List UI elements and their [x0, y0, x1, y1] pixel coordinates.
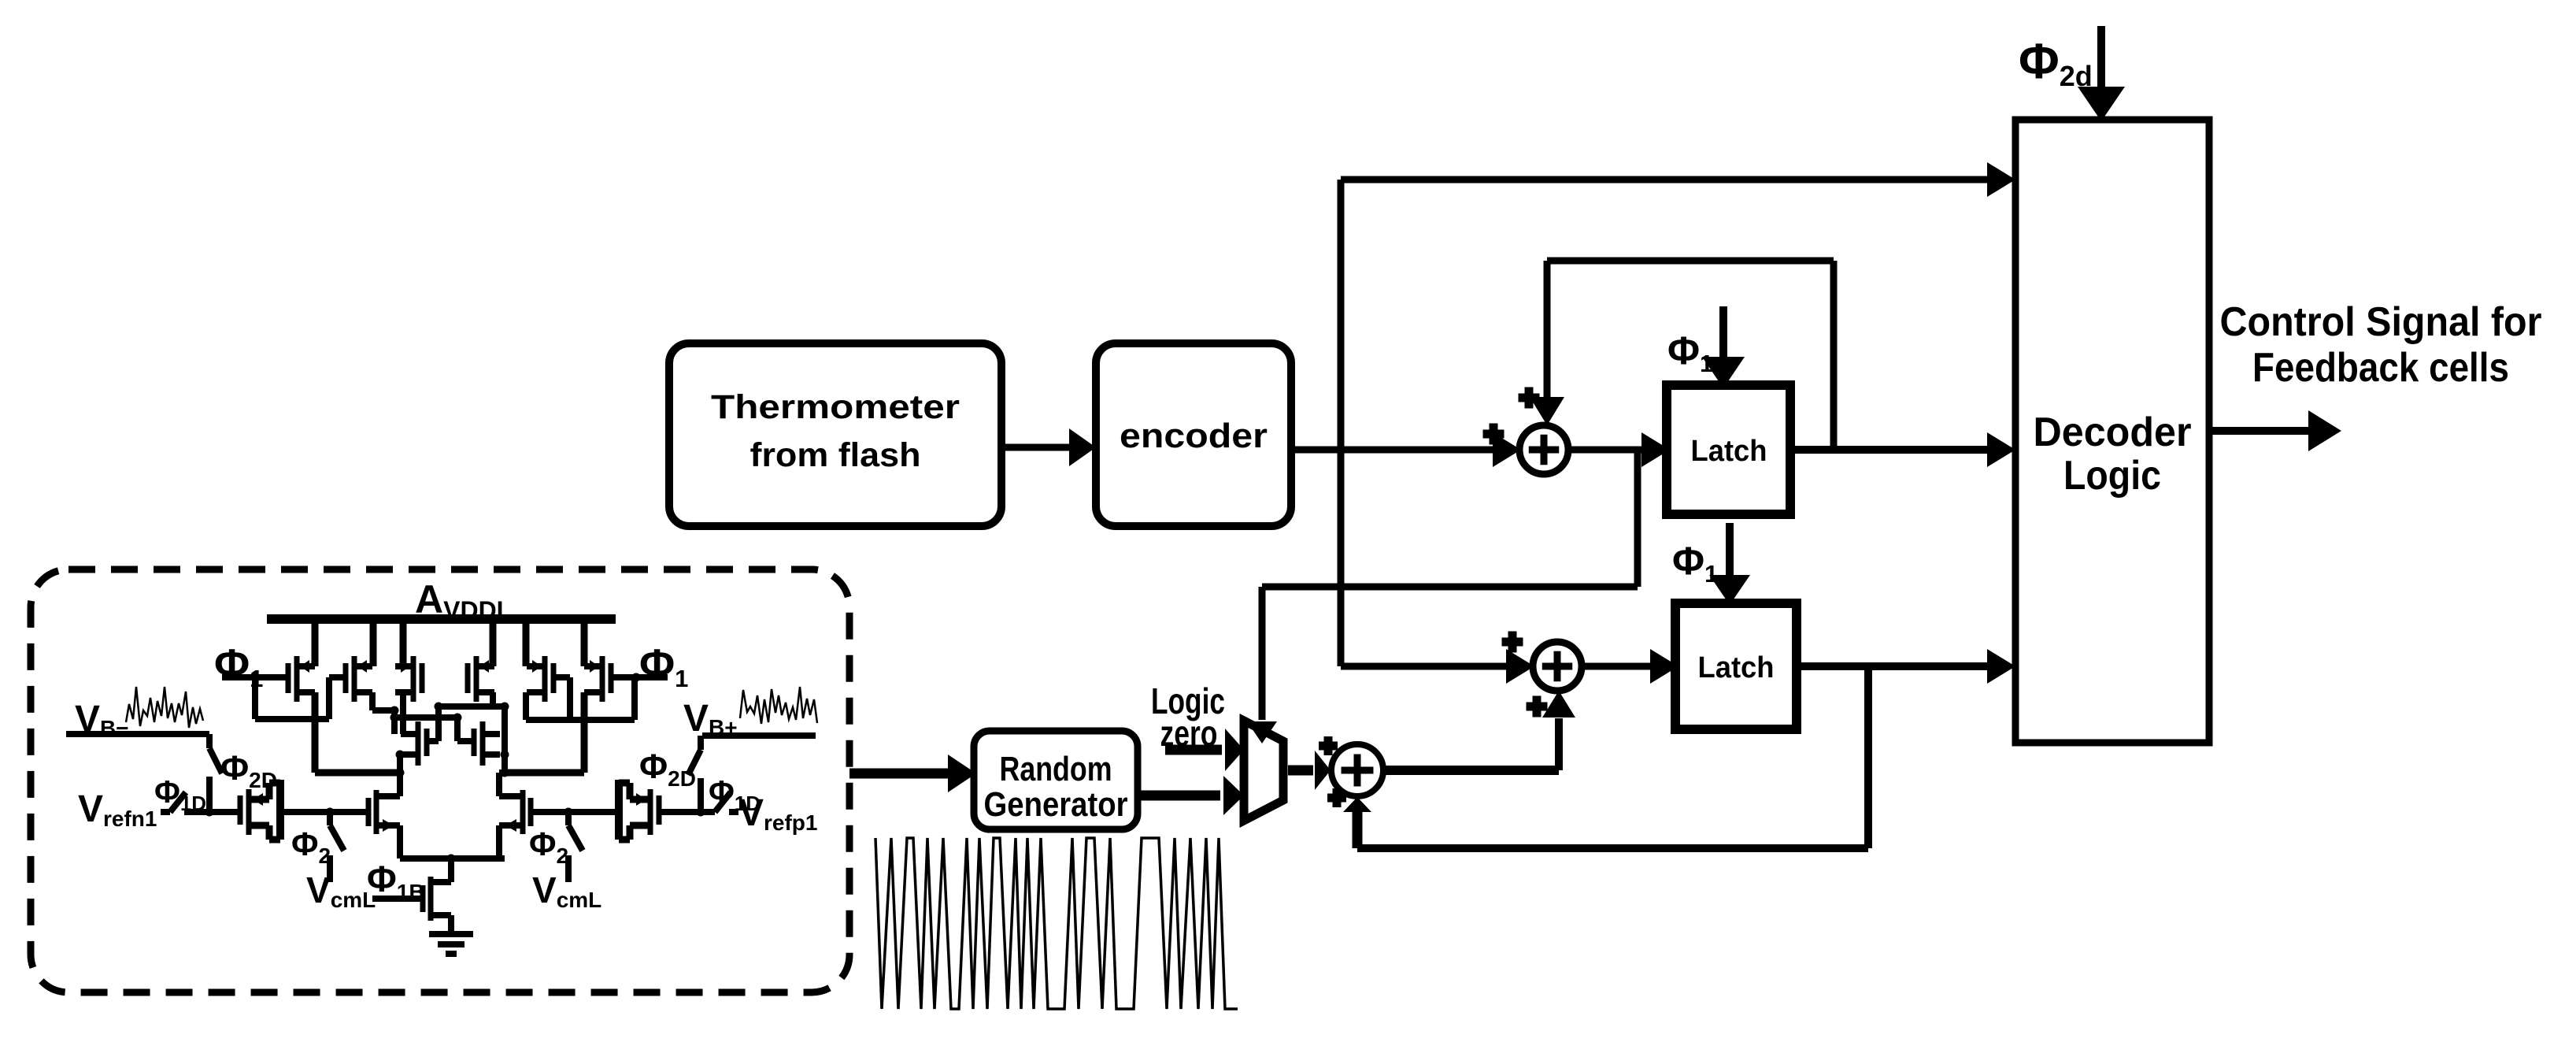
left noise squiggle — [126, 687, 203, 728]
rail stubs to top transistors — [312, 619, 319, 666]
wire phi1B gate lead — [372, 896, 423, 902]
transistor M4 (top row) — [465, 663, 471, 693]
switch phi1D left — [161, 809, 170, 815]
adder A1 (first summer) — [1519, 425, 1568, 474]
adder A2 (second summer) — [1533, 642, 1582, 691]
wire thermometer to encoder with arrow — [1005, 444, 1071, 451]
wire comparator output into random generator — [849, 769, 948, 779]
wire random generator output into mux — [1138, 791, 1220, 801]
wire phi1 feedback left — [252, 677, 258, 719]
power rail AVDDL — [267, 614, 616, 624]
input transistor MD1 (left of diff pair) — [366, 798, 372, 826]
switch phi1D right — [659, 809, 715, 815]
block: Thermometer from flash — [669, 343, 1001, 526]
wire adder A1 output branch down to mux select — [1634, 450, 1641, 587]
right noise squiggle — [740, 687, 817, 724]
svg-text:Thermometer: Thermometer — [711, 388, 960, 426]
wire lower branch to adder2 — [1341, 663, 1506, 670]
transistor M6 (top row right) — [609, 663, 614, 693]
wire phi1 left to M1 gate — [222, 674, 289, 680]
svg-text:Control Signal for: Control Signal for — [2220, 299, 2542, 345]
wire adder A2 to latch2 — [1582, 663, 1650, 670]
wire MD1 drain up — [397, 773, 403, 796]
adder A3 (third summer) — [1331, 744, 1383, 796]
switch phi2D left — [206, 734, 213, 748]
random generator output waveform — [875, 838, 1238, 1009]
cross-coupled transistor MC1 (left) — [424, 729, 430, 756]
switch phi2D right — [698, 736, 704, 750]
wire M5 source drop — [523, 692, 529, 720]
block: Latch 2 — [1675, 603, 1797, 729]
block: encoder — [1096, 343, 1291, 526]
wire MP1 output to diff gate — [279, 809, 368, 815]
switch phi2 left — [327, 812, 333, 825]
transistor M5 (top row) — [551, 663, 557, 693]
wire phi1 feedback right — [631, 677, 638, 720]
svg-text:Feedback cells: Feedback cells — [2252, 345, 2509, 391]
clock phi1 arrow into latch1 — [1719, 306, 1727, 358]
plus sign at adder A3 left input — [1319, 742, 1338, 751]
wire encoder output to adder1 — [1294, 447, 1493, 454]
block: Latch 1 — [1667, 385, 1790, 514]
wire top branch to decoder input 1 — [1341, 176, 1989, 184]
svg-text:Latch: Latch — [1691, 435, 1767, 468]
wire MD2 source down — [496, 825, 502, 858]
svg-text:from flash: from flash — [750, 436, 921, 474]
transistor M3 (top row) — [420, 663, 425, 693]
wire VB+ horizontal — [702, 732, 816, 739]
wire M2 source to cross node left — [369, 692, 376, 710]
plus sign at adder A1 left input — [1483, 430, 1505, 439]
cross pair source drops — [397, 755, 403, 773]
wire latch1 output to decoder input 2 — [1790, 446, 1989, 454]
svg-text:Latch: Latch — [1698, 651, 1775, 684]
dashed box: comparator / random source circuit — [31, 569, 849, 992]
plus sign at adder A2 left input — [1502, 638, 1523, 647]
svg-text:encoder: encoder — [1120, 417, 1268, 455]
wire phi1 right to M6 gate — [610, 674, 668, 680]
transistor M1 (top row left) — [286, 663, 291, 693]
input transistor MD2 (right of diff pair) — [528, 798, 534, 826]
feedback loop from latch1 output to adder A1 — [1830, 261, 1838, 450]
wire logic zero into mux — [1165, 745, 1222, 755]
mux (2-to-1 selector) — [1244, 721, 1283, 821]
wire latch2 output to decoder input 3 — [1797, 662, 1989, 670]
wire latch1 bottom to latch2 clock — [1726, 523, 1734, 577]
block: Decoder Logic — [2015, 120, 2209, 743]
wire M6 drain drop to output node right — [581, 692, 588, 773]
cross-coupled transistor MC2 (right) — [472, 729, 477, 756]
wire MP2 output to diff gate — [531, 809, 620, 815]
clock phi2d arrow into decoder top — [2097, 26, 2105, 91]
wire VB- horizontal — [66, 731, 209, 737]
wire M4 source drop — [490, 692, 496, 706]
wire MD1 source down — [397, 825, 403, 858]
ground symbol — [429, 931, 473, 937]
pass transistor MP2 (right) — [657, 795, 662, 825]
svg-text:Decoder: Decoder — [2034, 410, 2192, 455]
svg-text:Random: Random — [1000, 750, 1112, 788]
svg-text:Generator: Generator — [984, 785, 1128, 824]
block: Random Generator — [974, 731, 1138, 829]
switch phi2 right — [565, 812, 572, 825]
transistor M2 (top row) — [343, 663, 349, 693]
plus sign at adder A2 bottom input — [1527, 703, 1548, 711]
wire decoder output arrow — [2209, 427, 2310, 435]
wire mux output to adder A3 — [1288, 766, 1313, 776]
wire M1 drain drop to output node left — [312, 692, 319, 773]
tail node wire — [400, 855, 505, 862]
plus sign at adder A1 top input — [1519, 394, 1540, 402]
svg-text:Logic: Logic — [2063, 453, 2161, 499]
output node wires — [315, 769, 400, 777]
wire adder A1 to latch1 — [1568, 447, 1641, 454]
plus sign at adder A3 bottom input — [1327, 794, 1346, 803]
wire latch2 output feedback drop — [1864, 666, 1872, 848]
tail transistor MT — [420, 885, 426, 912]
pass transistor MP1 (left) — [238, 795, 243, 825]
wire encoder branch vertical — [1338, 180, 1345, 666]
cross coupling wires — [391, 710, 398, 734]
wire M3 source drop — [400, 692, 406, 734]
wire MD2 drain up — [496, 773, 502, 796]
wire adder A3 output to adder A2 — [1384, 766, 1559, 775]
